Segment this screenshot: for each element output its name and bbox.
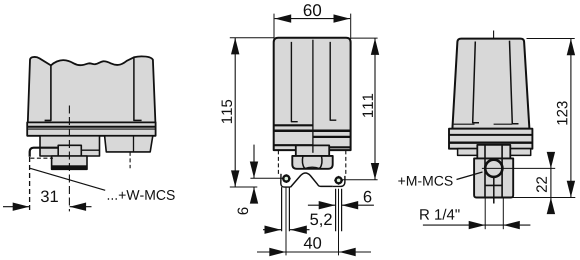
side flange — [449, 129, 532, 149]
dim 6 left arrow down — [250, 162, 258, 179]
bracket hidden line vertical (dashed) — [29, 157, 31, 211]
mounting hole right — [336, 177, 342, 183]
label R 1/4" — [420, 209, 459, 220]
fitting bottom reference line — [505, 197, 575, 199]
dim 22 shaft — [550, 153, 552, 214]
dim 31 line right — [70, 206, 92, 208]
flange line 2 — [27, 128, 155, 130]
flange line 1 — [27, 126, 155, 128]
body right facet edge — [134, 58, 142, 121]
dim 60 line — [275, 18, 351, 20]
center raised block — [58, 145, 81, 156]
fitting neck — [477, 145, 510, 159]
step line on lower-left block — [81, 149, 99, 151]
body lower line segments — [454, 123, 513, 125]
dim R1/4 arrow right — [503, 221, 520, 229]
dim 115 arrow down — [231, 170, 239, 187]
side body — [452, 39, 529, 129]
dim 111 extension bottom — [342, 179, 378, 181]
flange line a (left half) — [274, 124, 313, 126]
dim 115 shaft — [234, 38, 236, 187]
dim 60 value — [304, 4, 321, 16]
dim 5,2 tail right — [290, 229, 310, 231]
bottom connector dark base — [52, 165, 87, 169]
dim 60 extension left — [273, 14, 275, 39]
hole right tick marks — [334, 176, 343, 185]
dim R1/4 line — [423, 224, 531, 226]
fitting center line — [493, 177, 495, 203]
dim 6 right tail left — [308, 204, 335, 206]
center line over plate — [312, 145, 314, 152]
dim 6 left shaft upper — [253, 145, 255, 179]
hex fitting side — [474, 158, 513, 197]
dim 6 right value — [364, 191, 372, 203]
hidden edge right (dashed) — [345, 150, 347, 175]
dim 31 arrow left — [13, 203, 30, 211]
label +M-MCS — [398, 176, 452, 186]
dim 115 extension top — [230, 37, 274, 39]
bottom plate — [296, 145, 329, 156]
lower-left block — [40, 136, 100, 156]
bracket foot left — [281, 174, 291, 187]
side stripe left — [473, 42, 479, 123]
dim 123 value — [557, 101, 568, 124]
mounting hole left — [283, 176, 289, 182]
hex facet bottom arc — [305, 167, 320, 168]
center split line — [312, 40, 314, 150]
flange line b (full) — [274, 130, 351, 133]
left leg axis extension — [285, 187, 287, 255]
dim 6 left value — [238, 207, 249, 214]
dim 115 arrow up — [231, 38, 239, 55]
dim 111 arrow up — [371, 38, 379, 55]
body left strip edge — [45, 65, 51, 120]
dim 123 shaft — [570, 39, 572, 198]
flange line d (left half) — [274, 144, 313, 146]
dim 22 value — [536, 177, 546, 192]
hex nut front — [292, 156, 332, 169]
dim R1/4 arrow left — [469, 221, 486, 229]
dim 31 value — [41, 190, 58, 202]
fitting crossbar — [485, 184, 502, 186]
dim 115 value — [222, 100, 232, 123]
label ...+W-MCS — [108, 190, 175, 200]
thread extension left — [484, 199, 486, 230]
dim 5,2 arrow right — [290, 226, 307, 234]
dim 60 extension right — [350, 14, 352, 39]
dim 40 line — [257, 251, 371, 253]
dim 6 left shaft lower — [253, 187, 255, 203]
hex facet junction dots — [303, 167, 305, 169]
dim 40 arrow right — [339, 248, 356, 256]
lower-right block — [105, 136, 153, 152]
foot bottom reference line — [230, 186, 257, 188]
bracket hidden line horizontal (dashed) — [30, 157, 53, 159]
hole left tick marks — [282, 174, 291, 183]
leader line W-MCS — [30, 168, 105, 190]
side flange line 2 — [449, 141, 532, 143]
leader line M-MCS — [457, 172, 483, 180]
fitting facet left — [484, 145, 486, 197]
dim 5,2 value — [310, 213, 331, 227]
inner edge of lower-right block — [133, 136, 135, 152]
bracket foot right — [333, 176, 345, 187]
side flange line 1 — [449, 134, 532, 136]
center axis (dash-dot) — [493, 31, 495, 200]
pressure switch body (perspective, wavy top) — [28, 56, 156, 122]
dim 40 value — [304, 237, 321, 249]
bottom connector block — [52, 156, 87, 169]
flange step band — [458, 149, 531, 156]
hole axis reference line — [482, 167, 555, 169]
dim 123 extension top — [527, 38, 575, 40]
center axis (dashed) — [68, 106, 70, 212]
dim 5,2 arrow left — [265, 226, 282, 234]
dim 123 arrow up — [567, 39, 575, 56]
groove line left — [291, 42, 297, 122]
dim 123 arrow down — [567, 181, 575, 198]
hex facet left — [302, 156, 304, 169]
dim 111 arrow down — [371, 163, 379, 180]
dim 22 arrow down — [547, 152, 555, 169]
connection hole circle — [485, 160, 502, 177]
dim 6 right arrow left — [319, 201, 336, 209]
right leg lines — [336, 189, 342, 231]
dim 40 arrow left — [269, 248, 286, 256]
right leg axis extension — [338, 189, 340, 256]
fitting facet right — [501, 145, 503, 197]
dim 111 value — [363, 94, 373, 117]
thread extension right — [502, 199, 504, 230]
dim 111 shaft — [374, 38, 376, 179]
flange band — [27, 122, 155, 135]
dim 22 arrow up — [547, 198, 555, 215]
mounting bracket edge (W) — [30, 148, 58, 157]
dim 31 arrow right — [70, 203, 87, 211]
hidden axis right block (dashed) — [129, 152, 131, 168]
hidden edge left (dashed) — [277, 150, 279, 174]
dim 6 left arrow up — [250, 187, 258, 204]
dim 60 arrow right — [334, 14, 351, 22]
dim 31 line left — [3, 206, 29, 208]
dim 6 right tail right — [342, 204, 374, 206]
bracket profile bump — [291, 173, 333, 187]
hex facet right — [320, 156, 322, 169]
dim 60 arrow left — [275, 14, 292, 22]
flange line e (right half) — [313, 146, 351, 148]
left leg lines — [282, 187, 290, 231]
front body — [274, 38, 351, 150]
dim 5,2 tail left — [263, 229, 281, 231]
side stripe right — [510, 41, 519, 124]
flange line c (right half) — [313, 136, 351, 138]
dim 111 extension top — [351, 37, 378, 39]
hole center reference line — [250, 177, 283, 179]
dim 6 right arrow right — [342, 201, 359, 209]
groove line right — [330, 42, 336, 120]
